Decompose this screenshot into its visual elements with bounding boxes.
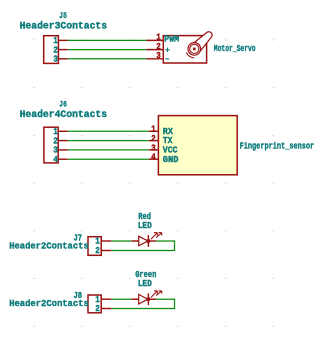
svg-text:Fingerprint_sensor: Fingerprint_sensor <box>240 140 315 151</box>
LED LED2 (Green) <box>131 291 161 305</box>
svg-text:LED: LED <box>138 220 152 231</box>
svg-text:4: 4 <box>53 155 58 165</box>
svg-text:GND: GND <box>163 154 179 165</box>
wire net J6.3 to U1.VCC <box>68 149 149 151</box>
wire net J7.1 to LED anode <box>111 240 131 242</box>
svg-text:2: 2 <box>95 304 100 314</box>
svg-text:4: 4 <box>151 153 156 163</box>
wire net J5.1 to SERVO.PWM <box>68 39 146 41</box>
svg-text:J5: J5 <box>59 11 67 21</box>
fingerprint sensor U1 (Fingerprint_sensor) <box>149 116 237 175</box>
connector J6 (Header4Contacts) <box>44 127 68 163</box>
pin name - <box>165 58 169 60</box>
wire net right vertical (J8) <box>174 299 176 309</box>
wire net J8.1 to LED anode <box>111 298 131 300</box>
svg-text:3: 3 <box>53 55 58 65</box>
svg-text:LED: LED <box>138 278 152 289</box>
connector J7 (Header2Contacts) <box>88 237 111 256</box>
svg-text:Header2Contacts: Header2Contacts <box>9 298 89 309</box>
wire net LED cathode right (J7) <box>156 240 175 242</box>
servo motor SERVO1 (Motor_Servo) <box>146 32 212 63</box>
wire net return to J8.2 <box>111 308 175 310</box>
connector J8 (Header2Contacts) <box>88 295 111 313</box>
wire net J6.4 to U1.GND <box>68 158 149 160</box>
svg-text:2: 2 <box>95 246 100 256</box>
wire net LED cathode right (J8) <box>156 298 175 300</box>
LED LED1 (Red) <box>131 233 161 247</box>
svg-text:Header2Contacts: Header2Contacts <box>9 241 89 252</box>
pin name + <box>165 48 169 52</box>
wire net right vertical (J7) <box>174 241 176 252</box>
svg-text:Motor_Servo: Motor_Servo <box>214 43 256 54</box>
wire net J6.2 to U1.TX <box>68 140 149 142</box>
wire net J5.2 to SERVO.+ <box>68 49 146 51</box>
svg-text:Header3Contacts: Header3Contacts <box>20 21 108 32</box>
svg-text:Header4Contacts: Header4Contacts <box>20 109 108 120</box>
svg-text:1: 1 <box>95 237 100 247</box>
svg-text:J6: J6 <box>59 100 67 110</box>
svg-text:3: 3 <box>156 51 161 61</box>
wire net return to J7.2 <box>111 250 175 252</box>
connector J5 (Header3Contacts) <box>44 36 68 64</box>
svg-text:PWM: PWM <box>164 35 179 45</box>
wire net J5.3 to SERVO.- <box>68 58 146 60</box>
wire net J6.1 to U1.RX <box>68 130 149 132</box>
